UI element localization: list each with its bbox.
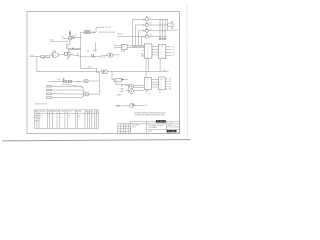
driver Q9 row3: [139, 28, 168, 32]
title block: [131, 121, 180, 134]
capacitor C1: [42, 56, 50, 60]
svg-text:2: 2: [161, 54, 162, 56]
svg-text:K1 COIL: K1 COIL: [100, 57, 106, 59]
note above table: [35, 104, 48, 106]
paper bottom edge shadow: [2, 140, 190, 141]
connector J2: [144, 78, 151, 90]
svg-text:28 2R: 28 2R: [116, 105, 121, 107]
svg-text:2 2B: 2 2B: [168, 79, 171, 81]
wire curve row1 drop: [62, 84, 85, 88]
resistor R2: [40, 56, 44, 58]
jumpers J2-XA2: [152, 79, 159, 87]
svg-text:2: 2: [161, 82, 162, 84]
svg-text:J2: J2: [146, 79, 148, 81]
bus risers to connector: [132, 19, 144, 46]
svg-text:Q9: Q9: [149, 29, 151, 31]
svg-text:GRN: GRN: [120, 88, 123, 90]
svg-text:2: 2: [92, 111, 93, 113]
svg-text:P2: P2: [173, 24, 175, 26]
paper right edge: [186, 3, 188, 140]
svg-text:T 2R2: T 2R2: [49, 40, 53, 42]
svg-text:2 2B: 2 2B: [168, 81, 171, 83]
transistor Q6: [85, 50, 108, 57]
notes above title block: [135, 113, 166, 117]
gate U1: [50, 50, 59, 57]
svg-text:2: 2: [161, 57, 162, 59]
svg-text:2: 2: [161, 49, 162, 51]
driver Q7 row1: [132, 17, 167, 21]
svg-text:Q7: Q7: [149, 17, 151, 19]
svg-text:R4: R4: [62, 37, 64, 39]
annotation text top: [99, 27, 124, 35]
diode CR2: [90, 28, 104, 34]
svg-text:L1: L1: [114, 44, 116, 46]
svg-text:2R2: 2R2: [53, 111, 56, 113]
svg-text:2R2: 2R2: [61, 111, 64, 113]
output stubs XA1: [166, 47, 175, 58]
title text: [132, 124, 176, 133]
svg-text:2R 2 2RR: 2R 2 2RR: [35, 116, 43, 118]
node A junction: [37, 57, 102, 72]
svg-text:2: 2: [48, 111, 49, 113]
svg-text:2: 2: [147, 82, 148, 84]
svg-text:2R2: 2R2: [69, 111, 72, 113]
svg-text:2R2 22R2 R2R 22R2R 2R 2R2R2 2R: 2R2 22R2 R2R 22R2R 2R 2R2R2 2R 2R2 2RR2: [135, 115, 165, 117]
drawing number: [167, 130, 177, 135]
wire bus mid horizontal: [81, 67, 97, 69]
svg-text:2B: 2B: [148, 94, 150, 96]
svg-text:22 2 RR: 22 2 RR: [35, 118, 41, 120]
svg-text:L2: L2: [114, 47, 116, 49]
wire collector Q6: [94, 42, 96, 51]
svg-text:R 2R2 R: R 2R2 R: [40, 111, 47, 113]
bundle wire 3: [47, 89, 85, 93]
svg-text:2: 2: [161, 52, 162, 54]
svg-text:2R 22: 2R 22: [148, 131, 152, 133]
driver Q8 row2: [135, 22, 167, 26]
svg-text:C 540: C 540: [121, 51, 125, 53]
svg-text:2 2B: 2 2B: [144, 105, 147, 107]
connector XA1: [159, 44, 166, 58]
svg-text:2R 22: 2R 22: [132, 127, 136, 129]
connector J1: [142, 44, 152, 58]
svg-text:2: 2: [124, 125, 125, 127]
pin column 4: [167, 19, 178, 30]
table header text: [35, 111, 98, 113]
output stubs XA2: [165, 79, 171, 91]
terminal row1: [48, 78, 83, 83]
pin column 1: [159, 19, 161, 40]
svg-text:2B: 2B: [173, 26, 175, 28]
svg-text:1K: 1K: [67, 47, 69, 49]
svg-text:2 2B: 2 2B: [168, 86, 171, 88]
connector plug row1: [84, 79, 100, 83]
wire input net IN1: [30, 56, 41, 58]
connector P2: [168, 22, 176, 29]
wire base feed Q1: [49, 40, 68, 42]
pin column 3: [164, 19, 166, 39]
title block revision grid: [118, 124, 131, 134]
table body text: [35, 115, 96, 127]
border frame: [27, 12, 180, 134]
logo: [156, 120, 166, 123]
table parts list: [34, 110, 98, 128]
svg-text:2N404: 2N404: [93, 50, 98, 52]
svg-text:2 24: 2 24: [171, 55, 174, 57]
lamp DS2: [120, 85, 133, 94]
svg-text:Q8: Q8: [149, 23, 151, 25]
ic box U3: [114, 44, 145, 53]
svg-text:4-100: 4-100: [30, 55, 34, 57]
pin column 2: [162, 19, 164, 39]
svg-text:2 21: 2 21: [171, 47, 174, 49]
J1 bottom pins: [146, 58, 166, 77]
svg-text:FL: FL: [122, 47, 124, 49]
meter M1: [100, 53, 120, 59]
revision grid text: [118, 125, 129, 127]
svg-text:2 2B: 2 2B: [168, 84, 171, 86]
svg-text:2 23: 2 23: [171, 52, 174, 54]
transistor pair Q1 Q2: [62, 31, 81, 49]
svg-text:2 2B: 2 2B: [168, 89, 171, 91]
svg-text:2: 2: [118, 125, 119, 127]
net label 28V: [117, 95, 122, 97]
svg-text:CR1: CR1: [86, 50, 89, 52]
wire riser P1: [89, 68, 100, 94]
svg-text:2: 2: [161, 87, 162, 89]
svg-text:TB1 R 2-2R-R 2-2R 2B 2: TB1 R 2-2R-R 2-2R 2B 2: [99, 32, 116, 34]
svg-text:2 22: 2 22: [171, 49, 174, 51]
node dots left of J1: [141, 54, 145, 57]
svg-text:R22 2R2R: R22 2R2R: [132, 125, 140, 127]
svg-text:Q10: Q10: [149, 35, 152, 37]
svg-text:R2R 2R2 R22 2R: R2R 2R2 R22 2R: [35, 104, 48, 106]
relay coil K1: [112, 72, 130, 85]
driver Q10 row4: [118, 34, 167, 38]
svg-text:2R2: 2R2: [79, 111, 82, 113]
svg-text:P 2B: P 2B: [88, 67, 91, 69]
wire vertical bus left: [80, 32, 82, 68]
flag box K1 contact: [102, 70, 169, 74]
svg-text:2.2K: 2.2K: [42, 58, 45, 60]
bundle wire 2: [47, 85, 86, 92]
connector jumper wires J1-XA1: [152, 46, 159, 56]
connector XA2: [159, 77, 166, 90]
net label IN1: [30, 55, 34, 57]
transistor pair Q5: [59, 49, 85, 58]
lamp DS1: [121, 85, 134, 89]
svg-text:Q2: Q2: [75, 35, 77, 37]
svg-text:R22 R2R2 2R2RT 2R22 R2R2 2R2 R: R22 R2R2 2R2RT 2R22 R2R2 2R2 R2R2 2R 22R: [135, 113, 166, 115]
bundle wire 5: [47, 95, 86, 98]
svg-text:2: 2: [161, 84, 162, 86]
svg-text:2: 2: [147, 85, 148, 87]
svg-text:TP2 1 2R: TP2 1 2R: [105, 27, 112, 29]
svg-text:J1: J1: [147, 46, 149, 48]
connector plug P1: [83, 92, 89, 96]
spare lamp DS3: [116, 104, 147, 108]
oscillator box U2: [81, 31, 90, 34]
J2 bottom pins: [146, 89, 160, 95]
svg-text:2: 2: [147, 87, 148, 89]
bundle wire 4: [47, 93, 85, 95]
lamp outputs to J2: [134, 86, 145, 91]
